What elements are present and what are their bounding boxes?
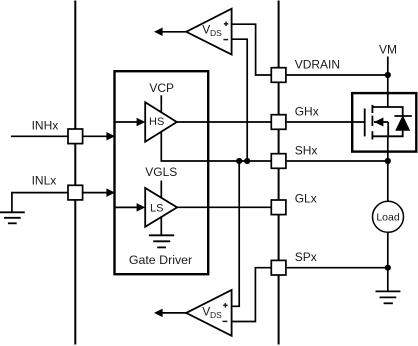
- svg-text:VGLS: VGLS: [145, 165, 177, 179]
- ground (left, INLx): [0, 212, 25, 223]
- gate driver box: [115, 71, 209, 274]
- svg-text:V: V: [202, 304, 210, 318]
- svg-text:SHx: SHx: [295, 144, 318, 158]
- wire FET source down to load: [387, 136, 389, 202]
- wire VGLS stem: [160, 181, 162, 199]
- pin VDRAIN: [271, 68, 286, 83]
- MOSFET box: [352, 93, 416, 152]
- wire LS input (inside box): [115, 206, 140, 208]
- junction node VDRAIN / VM: [385, 72, 391, 78]
- transistor high-side FET: [287, 105, 403, 140]
- svg-text:VM: VM: [379, 43, 397, 57]
- svg-text:DS: DS: [210, 310, 222, 320]
- ground (load/SPx): [376, 291, 401, 303]
- wire bottom VDS - input to SPx: [232, 268, 271, 322]
- pin GHx: [271, 115, 286, 130]
- wire SHx (HS source to SHx pin): [161, 131, 270, 161]
- junction node SPx / load: [385, 265, 391, 271]
- pin SPx: [271, 260, 286, 275]
- svg-text:INHx: INHx: [32, 119, 59, 133]
- svg-text:LS: LS: [150, 203, 163, 215]
- wire LS ground stem: [160, 218, 162, 236]
- op-amp bottom VDS sense: [154, 290, 232, 336]
- body line: [374, 121, 388, 123]
- drain connection: [372, 107, 402, 116]
- junction node SHx / FET source: [385, 158, 391, 164]
- pin INHx: [68, 129, 83, 144]
- arrowhead LS input: [137, 203, 146, 212]
- ground (LS): [149, 235, 174, 247]
- left device boundary line: [74, 1, 76, 345]
- wire bottom VDS + input to SHx: [232, 161, 240, 306]
- svg-text:VDRAIN: VDRAIN: [295, 57, 340, 71]
- wire SHx to FET source / load: [287, 160, 388, 162]
- arrowhead INLx: [106, 188, 115, 197]
- channel segment top: [371, 105, 373, 113]
- load: [373, 201, 404, 232]
- wire VM down to FET drain: [387, 57, 389, 108]
- junction node SHx / top VDS-: [244, 158, 250, 164]
- channel segment middle: [371, 116, 373, 126]
- arrowhead HS input: [137, 118, 146, 127]
- wire VDRAIN to VM: [287, 74, 388, 76]
- svg-text:INLx: INLx: [32, 174, 57, 188]
- wire top VDS + input to VDRAIN: [232, 24, 271, 75]
- op-amp top VDS sense: [154, 9, 232, 55]
- svg-text:VCP: VCP: [149, 81, 174, 95]
- junction node SHx / bottom VDS+: [236, 158, 242, 164]
- right device boundary line: [278, 1, 280, 345]
- wire SPx to load bottom: [287, 267, 388, 269]
- svg-text:DS: DS: [210, 28, 222, 38]
- arrowhead INHx: [106, 132, 115, 141]
- pin INLx: [68, 185, 83, 200]
- wire top VDS - input to SHx: [232, 39, 248, 161]
- svg-text:Gate Driver: Gate Driver: [129, 253, 192, 267]
- svg-text:SPx: SPx: [295, 250, 317, 264]
- wire VCP stem: [160, 95, 162, 112]
- svg-text:Load: Load: [376, 212, 400, 224]
- channel segment bottom: [371, 131, 373, 139]
- wire INHx input: [11, 135, 115, 137]
- wire INLx input: [12, 193, 115, 213]
- svg-text:GHx: GHx: [295, 105, 319, 119]
- svg-text:HS: HS: [149, 116, 164, 128]
- wire GHx (HS output to MOSFET gate): [177, 121, 271, 123]
- op-amp LS driver: [145, 188, 177, 227]
- wire load bottom to ground: [387, 233, 389, 292]
- gate bar: [364, 109, 366, 137]
- pin GLx: [271, 200, 286, 215]
- svg-text:GLx: GLx: [295, 192, 317, 206]
- wire GLx (LS output): [177, 206, 271, 208]
- pin SHx: [271, 154, 286, 169]
- gate lead wire: [287, 121, 365, 123]
- source connection: [372, 130, 402, 136]
- svg-text:V: V: [202, 23, 210, 37]
- body arrowhead: [374, 118, 383, 127]
- body diode: [394, 115, 411, 117]
- wire HS input (inside box): [115, 121, 140, 123]
- op-amp HS driver: [145, 102, 177, 142]
